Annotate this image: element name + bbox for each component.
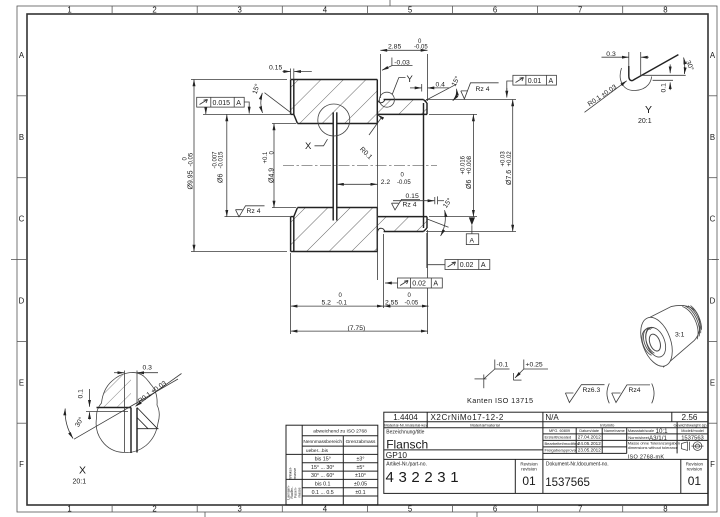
svg-text:3: 3 [238,505,242,514]
svg-text:15° ... 30°: 15° ... 30° [311,465,334,471]
svg-text:-0.1: -0.1 [497,362,509,369]
svg-text:X: X [305,141,312,152]
svg-text:20:1: 20:1 [73,478,87,485]
svg-text:Rz 4: Rz 4 [403,202,417,209]
svg-text:C: C [710,215,716,224]
svg-text:Rz 4: Rz 4 [247,208,261,215]
svg-text:GP10: GP10 [386,450,408,460]
svg-text:ueber...bis: ueber...bis [306,448,329,454]
svg-text:0.02: 0.02 [460,262,474,269]
svg-text:0.4: 0.4 [436,82,446,89]
svg-text:0.1 ... 0.5: 0.1 ... 0.5 [312,490,334,496]
svg-text:3: 3 [238,6,242,15]
svg-text:2.85: 2.85 [388,43,401,50]
svg-text:+0.1: +0.1 [263,151,269,164]
svg-text:1537565: 1537565 [545,477,590,489]
svg-text:4: 4 [323,505,328,514]
svg-text:+0.03: +0.03 [501,151,507,167]
svg-text:abweichend zu ISO 2768: abweichend zu ISO 2768 [313,429,367,435]
svg-text:masse: masse [297,487,301,497]
svg-text:0.15: 0.15 [269,64,282,71]
svg-text:-0.03: -0.03 [394,59,410,66]
svg-text:Y: Y [407,74,414,85]
svg-text:1.4404: 1.4404 [393,413,418,422]
svg-text:B: B [19,133,24,142]
svg-text:Ø7.6: Ø7.6 [506,170,513,185]
svg-text:Nennmassbereich: Nennmassbereich [303,439,342,445]
svg-text:-0.015: -0.015 [219,151,225,169]
svg-text:±0.05: ±0.05 [354,482,367,488]
svg-text:Material/material: Material/material [470,422,500,427]
svg-text:+0.008: +0.008 [467,155,473,174]
svg-text:-0.05: -0.05 [397,180,411,186]
svg-text:0.1: 0.1 [78,389,85,399]
svg-text:dimensions without tolerance: dimensions without tolerance [628,445,678,450]
svg-text:30° ... 60°: 30° ... 60° [311,473,334,479]
svg-text:Datum/date: Datum/date [579,429,599,433]
svg-text:Norm/sheet: Norm/sheet [628,435,650,440]
svg-text:27.04.2012: 27.04.2012 [578,435,601,440]
svg-text:Freigabe/approval: Freigabe/approval [545,448,577,453]
svg-text:D: D [19,296,25,305]
svg-text:+0.25: +0.25 [526,362,543,369]
svg-text:24.05.2012: 24.05.2012 [578,441,601,446]
svg-text:A: A [470,238,475,245]
svg-text:A: A [236,100,241,107]
svg-text:2.2: 2.2 [381,179,391,186]
svg-text:3:1: 3:1 [675,332,685,339]
svg-text:Ø4.9: Ø4.9 [269,168,276,183]
svg-text:01: 01 [688,474,702,488]
svg-text:-0.05: -0.05 [405,300,419,306]
svg-text:revision: revision [521,467,537,472]
svg-text:revision: revision [687,467,703,472]
svg-text:Dokument-Nr./document-no.: Dokument-Nr./document-no. [546,462,609,468]
svg-text:B: B [710,133,715,142]
svg-text:(7.75): (7.75) [348,325,366,332]
svg-text:0.3: 0.3 [143,365,153,372]
svg-text:N/A: N/A [545,413,559,422]
svg-text:2.56: 2.56 [682,413,698,422]
svg-text:-0.05: -0.05 [414,44,428,50]
svg-text:bis 15°: bis 15° [315,457,331,463]
svg-text:2: 2 [152,505,156,514]
svg-text:Ø6: Ø6 [218,174,225,183]
svg-text:Grenzabmass: Grenzabmass [346,439,376,445]
svg-text:A: A [481,262,486,269]
svg-text:-0.007: -0.007 [212,151,218,169]
svg-text:0.3: 0.3 [606,51,616,58]
svg-text:X: X [79,465,86,477]
svg-text:Modell/model: Modell/model [681,429,704,433]
svg-text:F: F [710,460,715,469]
svg-text:+0.016: +0.016 [461,155,467,174]
svg-text:8: 8 [663,6,667,15]
svg-text:2: 2 [152,6,156,15]
svg-text:±5°: ±5° [357,465,365,471]
svg-text:7: 7 [578,6,582,15]
svg-text:7: 7 [578,505,582,514]
svg-text:5.2: 5.2 [322,299,332,306]
svg-text:Bearbeitet/modified: Bearbeitet/modified [545,441,579,446]
svg-text:Rz4: Rz4 [629,387,641,394]
svg-text:0.1: 0.1 [660,83,667,93]
svg-text:Name/name: Name/name [604,429,625,433]
svg-text:C: C [19,215,25,224]
svg-text:6: 6 [493,6,497,15]
svg-text:Rz 4: Rz 4 [476,86,490,93]
svg-text:6: 6 [493,505,497,514]
svg-text:Rz6.3: Rz6.3 [583,387,601,394]
svg-text:Material-Nr./material-key: Material-Nr./material-key [384,422,428,427]
svg-text:4: 4 [323,6,328,15]
svg-text:A: A [433,281,438,288]
svg-text:Y: Y [645,104,652,116]
svg-text:E: E [19,378,24,387]
svg-text:0.02: 0.02 [412,281,426,288]
svg-text:10:1: 10:1 [656,428,669,435]
svg-text:±3°: ±3° [357,457,365,463]
svg-text:E: E [710,378,715,387]
svg-text:Erstellt/created: Erstellt/created [545,435,572,440]
svg-text:masse: masse [293,468,297,479]
svg-text:8: 8 [663,505,667,514]
svg-text:bis 0.1: bis 0.1 [315,482,331,488]
svg-text:23.05.2012: 23.05.2012 [578,448,601,453]
svg-text:+0.02: +0.02 [507,151,513,167]
svg-text:432231: 432231 [386,469,464,486]
svg-text:F: F [19,460,24,469]
svg-text:5: 5 [408,6,413,15]
svg-text:0.015: 0.015 [213,100,231,107]
svg-text:Massstab/scale: Massstab/scale [628,429,654,433]
svg-text:-0.1: -0.1 [337,300,348,306]
svg-text:2.55: 2.55 [385,299,398,306]
svg-text:Info/info: Info/info [600,422,615,427]
svg-text:A: A [19,51,25,60]
svg-text:1537563: 1537563 [681,435,704,441]
svg-text:Ø6: Ø6 [466,180,473,189]
svg-text:A: A [710,51,716,60]
svg-text:Ø9.95: Ø9.95 [188,170,195,189]
svg-text:Kanten ISO 13715: Kanten ISO 13715 [467,396,533,405]
svg-text:01: 01 [522,474,536,488]
svg-text:Winkel-: Winkel- [289,466,293,479]
svg-text:Bezeichnung/title: Bezeichnung/title [386,430,424,436]
svg-text:Flansch: Flansch [386,437,428,451]
svg-text:1: 1 [67,6,71,15]
svg-text:Gewicht/weight (g): Gewicht/weight (g) [673,422,707,427]
svg-text:5: 5 [408,505,413,514]
svg-text:A: A [549,78,554,85]
svg-text:MFG. 60809: MFG. 60809 [549,429,570,433]
svg-text:1: 1 [67,505,71,514]
svg-text:0.01: 0.01 [528,78,542,85]
svg-text:±10°: ±10° [355,473,366,479]
svg-text:Artikel-Nr./part-no.: Artikel-Nr./part-no. [386,462,427,468]
svg-text:ISO 2768-mK: ISO 2768-mK [628,454,665,460]
svg-text:D: D [710,296,716,305]
svg-text:-0.05: -0.05 [189,152,195,166]
svg-text:20:1: 20:1 [638,118,652,125]
svg-text:X2CrNiMo17-12-2: X2CrNiMo17-12-2 [431,413,504,422]
svg-text:±0.1: ±0.1 [355,490,365,496]
